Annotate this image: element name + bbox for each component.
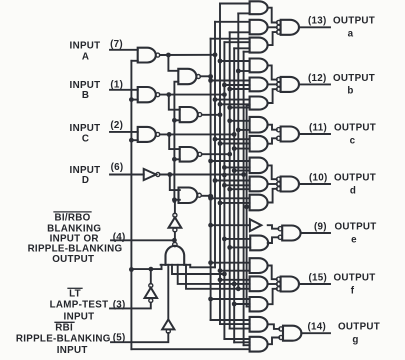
wire LT line to gate A second input [131, 60, 137, 62]
wire output d [299, 183, 330, 185]
svg-text:OUTPUT: OUTPUT [335, 221, 377, 232]
wire gate input stub [230, 107, 250, 109]
gate output e NOR [282, 226, 300, 241]
svg-text:(2): (2) [110, 120, 123, 131]
wire input C pin 2 [110, 131, 138, 133]
wire gate input stub [230, 246, 251, 248]
node LT line at gate C [129, 138, 134, 143]
wire bus line blanking vertical [246, 105, 248, 306]
node LT line at gate B [129, 97, 134, 102]
gate A-bar NAND [178, 69, 196, 84]
svg-text:OUTPUT: OUTPUT [334, 122, 376, 133]
node D line end [241, 172, 246, 177]
gate B input NAND [138, 87, 156, 102]
node bus junction [218, 268, 223, 273]
node bus junction [208, 297, 213, 302]
node blanking line at D NAND input [172, 197, 177, 202]
node bus junction [236, 69, 241, 74]
svg-text:A: A [82, 51, 89, 62]
wire input A pin 7 [110, 49, 138, 51]
node bus junction [232, 168, 237, 173]
node bus junction [227, 187, 232, 192]
wire bus B-bar bottom bend to g1 [220, 323, 250, 325]
wire gate to output gate [268, 289, 277, 304]
node blanking NAND C tap [232, 282, 237, 287]
wire output f [299, 283, 330, 285]
svg-text:OUTPUT: OUTPUT [334, 172, 376, 183]
svg-text:BI/RBO: BI/RBO [54, 212, 90, 223]
svg-text:(14): (14) [308, 322, 327, 333]
node bus junction [222, 237, 227, 242]
node bus junction [227, 87, 232, 92]
node bus junction [218, 277, 223, 282]
wire gate input stub [234, 170, 249, 172]
svg-text:LT: LT [69, 288, 81, 299]
svg-text:g: g [352, 335, 358, 346]
gate d3 AND [250, 195, 268, 211]
wire gate D NAND output [202, 195, 211, 197]
node bus junction [208, 159, 213, 164]
wire gate to output gate [268, 125, 277, 130]
wire gate input stub [234, 148, 249, 150]
wire D output to D NAND [170, 175, 180, 191]
wire gate to output gate [268, 165, 277, 179]
wire gate to output gate [268, 183, 277, 185]
svg-text:LAMP-TEST: LAMP-TEST [50, 299, 109, 310]
node LT line at vertical [129, 267, 134, 272]
wire blanking NAND input bar [161, 264, 191, 266]
wire gate input stub [224, 238, 250, 240]
wire blanking bus top bend to b3 [247, 104, 250, 106]
wire blanking bus bottom bend to f3 [247, 306, 250, 308]
gate output d NOR [281, 177, 299, 192]
svg-text:(4): (4) [113, 232, 126, 243]
wire gate input stub [211, 197, 250, 199]
gate g1 AND [250, 317, 268, 332]
wire bus D top bend to a3 [244, 51, 250, 53]
svg-text:f: f [351, 285, 355, 296]
node bus junction [227, 105, 232, 110]
node bus junction [227, 245, 232, 250]
svg-text:OUTPUT: OUTPUT [52, 254, 94, 265]
wire gate to output gate [268, 83, 277, 85]
gate f3 AND [250, 297, 268, 311]
node D line junction [222, 173, 227, 178]
wire LT leg of blanking NAND [161, 265, 163, 269]
gate b2 AND [250, 78, 268, 92]
svg-text:(10): (10) [309, 172, 328, 183]
svg-text:(7): (7) [110, 39, 123, 50]
node bus junction [222, 183, 227, 188]
wire RBO bottom run [131, 348, 249, 350]
svg-text:(9): (9) [314, 221, 327, 232]
node bus junction [213, 97, 218, 102]
wire LT line to gate C second input [131, 139, 137, 141]
wire gate input stub [220, 143, 250, 145]
wire gate input stub [230, 88, 250, 90]
wire gate input stub [230, 120, 250, 122]
gate g2 AND [250, 337, 268, 352]
node bus junction [222, 83, 227, 88]
wire gate input stub [215, 138, 250, 140]
wire output c [299, 133, 330, 135]
node bus junction [218, 201, 223, 206]
gate b1 AND [250, 59, 268, 73]
node bus junction [227, 118, 232, 123]
svg-text:OUTPUT: OUTPUT [338, 322, 380, 333]
wire gate input stub [215, 99, 250, 101]
wire blanking NAND D leg to bus and f2 low input [186, 265, 250, 289]
wire gate to output gate [268, 266, 277, 280]
svg-text:OUTPUT: OUTPUT [334, 272, 376, 283]
wire gate A-bar output [200, 75, 210, 77]
node B-bar line end [218, 112, 223, 117]
wire gate input stub [224, 184, 249, 186]
inverter LT buffer (up) [150, 269, 152, 284]
svg-text:(13): (13) [308, 16, 327, 27]
node bus junction [232, 146, 237, 151]
wire bus A top bend to a2 [215, 21, 250, 23]
wire gate input stub [230, 188, 250, 190]
svg-text:OUTPUT: OUTPUT [333, 16, 375, 27]
svg-text:D: D [82, 175, 89, 186]
wire gate C-bar output [202, 153, 230, 155]
node bus junction [208, 196, 213, 201]
wire gate to output gate [268, 189, 277, 203]
wire e buffer input stub [211, 224, 250, 226]
wire LT horizontal line [131, 268, 161, 270]
node blanking line at C-bar input [172, 157, 177, 162]
wire gate input stub [220, 103, 250, 105]
node C-bar line end [227, 152, 232, 157]
wire LT pin 3 [110, 303, 151, 309]
node gate A output tee [166, 53, 171, 58]
gate blanking NAND (up) body [166, 246, 185, 265]
wire blanking NAND C leg to bus and f2 mid input [178, 265, 250, 284]
node bus junction [222, 165, 227, 170]
wire gate A output [160, 54, 215, 56]
wire gate A output to A-bar NAND [168, 55, 178, 71]
wire gate to output gate [268, 8, 277, 23]
node B line end [222, 92, 227, 97]
node bus junction [213, 137, 218, 142]
svg-text:a: a [348, 29, 354, 40]
node bus junction [218, 141, 223, 146]
wire BI/RBO pin 4 [111, 239, 174, 241]
node bus junction [236, 127, 241, 132]
wire output e [301, 232, 331, 234]
gate C input NAND [138, 127, 156, 142]
node gate B output tee [166, 92, 171, 97]
wire gate B-bar output [202, 114, 220, 116]
svg-text:INPUT: INPUT [70, 123, 101, 134]
wire bus B bottom bend to g2 [224, 338, 249, 340]
buffer e triangle [250, 219, 261, 231]
wire output a [299, 26, 330, 28]
wire bus C bottom bend to g2 [234, 341, 249, 343]
wire blanking NAND A leg to bus [190, 265, 215, 268]
node bus junction [208, 78, 213, 83]
inverter D input [144, 169, 156, 180]
node blanking tap at D NAND [172, 199, 176, 203]
wire bus A-bar bottom bend to g1 [211, 319, 250, 321]
node A line end [213, 52, 218, 57]
wire bus line D vertical [243, 52, 245, 346]
node gate C output tee [167, 132, 172, 137]
wire blanking to B-bar input [174, 119, 179, 121]
wire inverter D output [160, 174, 244, 176]
wire bus line D-bar vertical [237, 13, 239, 288]
gate e2 AND [250, 236, 268, 251]
wire BI inverter to D NAND junction [174, 201, 176, 213]
gate a1 AND [250, 1, 268, 14]
wire bus line B-bar vertical [219, 4, 221, 325]
gate C-bar NAND [180, 147, 198, 162]
wire blanking NAND B leg to bus [172, 265, 224, 274]
svg-text:(15): (15) [309, 272, 328, 283]
wire gate input stub [211, 262, 250, 264]
wire bus line C vertical [233, 48, 235, 342]
svg-text:(6): (6) [111, 162, 124, 173]
wire gate to output gate [268, 26, 277, 28]
svg-text:(11): (11) [309, 122, 327, 133]
wire blanking NAND output to BI/RBO node [174, 240, 176, 242]
wire gate to output gate [268, 237, 279, 243]
gate A input NAND [138, 48, 156, 63]
wire gate input stub [211, 80, 250, 82]
wire gate C output to C-bar NAND [169, 134, 180, 149]
wire gate input stub [234, 303, 249, 305]
gate c1 AND [250, 117, 268, 133]
svg-text:b: b [347, 86, 353, 97]
wire bus C-bar top bend to a2 [230, 31, 250, 33]
wire gate B output [160, 94, 225, 96]
wire gate input stub [247, 206, 250, 208]
wire bus B top bend to a3 [224, 41, 249, 43]
node BI/RBO [172, 238, 177, 243]
wire gate input stub [220, 60, 250, 62]
svg-text:INPUT: INPUT [64, 312, 95, 323]
wire bus line B vertical [223, 42, 225, 339]
svg-text:c: c [350, 135, 356, 146]
svg-text:INPUT: INPUT [70, 40, 101, 51]
wire blanking vertical line [174, 82, 178, 201]
node bus junction [213, 178, 218, 183]
svg-text:OUTPUT: OUTPUT [333, 73, 375, 84]
wire gate to output gate [268, 65, 277, 79]
wire output g [301, 332, 330, 334]
svg-text:RIPPLE-BLANKING: RIPPLE-BLANKING [28, 244, 123, 255]
gate blanking NAND output bubble [173, 242, 177, 246]
wire RBI pin 5 [111, 333, 168, 342]
wire gate input stub [220, 270, 250, 272]
wire gate to output gate [268, 225, 279, 229]
wire bus line C-bar vertical [229, 32, 231, 328]
wire gate to output gate [268, 138, 277, 143]
wire gate to output gate [268, 89, 277, 103]
svg-text:RIPPLE-BLANKING: RIPPLE-BLANKING [16, 334, 111, 345]
node bus junction [218, 102, 223, 107]
gate c2 AND [250, 136, 268, 152]
gate B-bar NAND [180, 107, 198, 122]
node D-bar line end [208, 194, 213, 199]
gate output f NOR [281, 277, 299, 292]
node blanking line at B-bar input [172, 118, 177, 123]
wire blanking to C-bar input [174, 158, 179, 160]
wire gate input stub [224, 84, 249, 86]
node bus junction [218, 59, 223, 64]
wire bus C top bend to a3 [234, 47, 249, 49]
wire bus line A-bar vertical [210, 39, 212, 320]
gate D NAND second level [179, 188, 198, 204]
gate a3 AND [250, 38, 268, 53]
node bus junction [244, 204, 249, 209]
wire input B pin 1 [110, 89, 138, 91]
gate f1 AND [250, 258, 268, 273]
wire gate input stub [224, 166, 249, 168]
wire gate input stub [220, 279, 250, 281]
gate a2 AND [250, 20, 268, 35]
node A-bar line end [208, 74, 213, 79]
wire bus D-bar top bend to a1 [238, 12, 249, 14]
wire LT line to gate B second input [131, 99, 137, 101]
gate output a NOR [281, 20, 299, 35]
gate f2 AND [250, 276, 268, 291]
gate d2 AND [250, 177, 268, 192]
node LT inverter output junction [149, 267, 154, 272]
inverter RBI buffer (up) [167, 265, 169, 320]
wire gate C output [160, 133, 234, 135]
node blanking NAND D tap [236, 286, 241, 291]
wire bus B-bar top bend to a1 [220, 3, 250, 5]
wire output b [299, 83, 330, 85]
node bus junction [232, 302, 237, 307]
wire bus line A vertical [214, 22, 216, 267]
svg-text:B: B [82, 90, 89, 101]
wire gate input stub [211, 298, 250, 300]
node inverter D output tee [167, 172, 172, 177]
svg-text:RBI: RBI [55, 322, 73, 333]
wire gate to output gate [268, 283, 277, 285]
wire gate to output gate [268, 338, 280, 345]
inverter BI buffer (up) [173, 213, 177, 217]
wire gate input stub [220, 202, 250, 204]
svg-text:C: C [82, 133, 89, 144]
wire bus C-bar bottom bend to g1 [230, 328, 250, 330]
svg-text:d: d [350, 185, 356, 196]
wire bus D bottom bend to g2 [244, 344, 250, 346]
wire gate input stub [211, 160, 250, 162]
svg-text:INPUT: INPUT [57, 345, 88, 356]
node blanking NAND B tap [222, 272, 227, 277]
wire blanking to D NAND input [174, 199, 179, 201]
gate d1 AND [250, 158, 268, 174]
wire gate input stub [238, 129, 249, 131]
wire LT vertical distribution line [130, 61, 132, 349]
wire bus A-bar top bend to a3 [211, 38, 250, 40]
wire gate input stub [238, 70, 249, 72]
svg-text:(12): (12) [308, 73, 327, 84]
gate b3 AND [250, 97, 268, 110]
wire BI inverter lower lead [174, 232, 176, 240]
node bus junction [208, 260, 213, 265]
wire gate input stub [215, 180, 250, 182]
wire input D pin 6 [110, 174, 144, 176]
wire gate B output to B-bar NAND [169, 95, 180, 110]
gate output b NOR [281, 77, 299, 92]
svg-text:e: e [351, 234, 357, 245]
gate output g NOR [283, 326, 301, 341]
node C line end [232, 132, 237, 137]
wire gate to output gate [268, 32, 277, 45]
node bus junction e buffer [208, 223, 213, 228]
wire gate to output gate [268, 324, 280, 329]
gate output c NOR [281, 127, 299, 142]
